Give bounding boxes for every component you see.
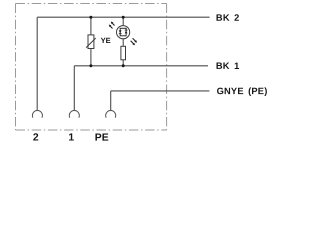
LED emission arrow upper-left B [109, 25, 113, 29]
svg-text:PE: PE [95, 133, 109, 144]
LED left diode cathode bar [119, 33, 122, 35]
svg-text:BK 2: BK 2 [216, 13, 240, 23]
LED right leg [125, 28, 127, 36]
wire LED branch upper [122, 17, 124, 26]
junction top YE [89, 16, 92, 19]
enclosure dash-dot border [16, 4, 167, 131]
label YE [101, 36, 111, 45]
varistor YE body [88, 35, 94, 49]
LED emission arrow lower-right C [133, 38, 137, 43]
svg-text:BK 1: BK 1 [216, 61, 240, 71]
svg-text:2: 2 [33, 133, 39, 144]
wire resistor to BK1 [122, 60, 124, 66]
wire pin1 vertical [73, 66, 75, 110]
wire BK1 middle horizontal [74, 65, 208, 67]
svg-text:1: 1 [68, 133, 74, 144]
resistor R1 body [121, 46, 126, 60]
wire YE branch lower [90, 49, 92, 66]
pin contact 1 [69, 111, 79, 118]
wire pin2 vertical [36, 17, 38, 110]
svg-text:GNYE (PE): GNYE (PE) [217, 86, 268, 96]
wire YE branch upper [90, 17, 92, 35]
LED right diode cathode bar [125, 29, 128, 31]
junction top LED [122, 16, 125, 19]
wire BK2 top horizontal [37, 16, 209, 18]
wire LED to resistor [122, 39, 124, 47]
wire pin PE vertical [110, 91, 112, 110]
LED left diode triangle [119, 30, 122, 33]
LED bottom bar [120, 35, 127, 37]
label BK 2 [33, 13, 268, 144]
junction BK1 YE [89, 64, 92, 67]
pin contact 2 [32, 111, 42, 118]
wire GNYE horizontal [111, 90, 210, 92]
varistor YE diagonal [86, 38, 96, 48]
LED top bar [120, 27, 127, 29]
LED left leg [119, 28, 121, 36]
LED right diode triangle [125, 30, 128, 33]
LED emission arrow lower-right D [131, 41, 135, 46]
LED emission arrow upper-left A [111, 22, 115, 26]
LED U1 circle [117, 26, 130, 39]
pin contact PE [106, 111, 116, 118]
svg-text:YE: YE [101, 36, 111, 45]
junction BK1 LED [122, 64, 125, 67]
